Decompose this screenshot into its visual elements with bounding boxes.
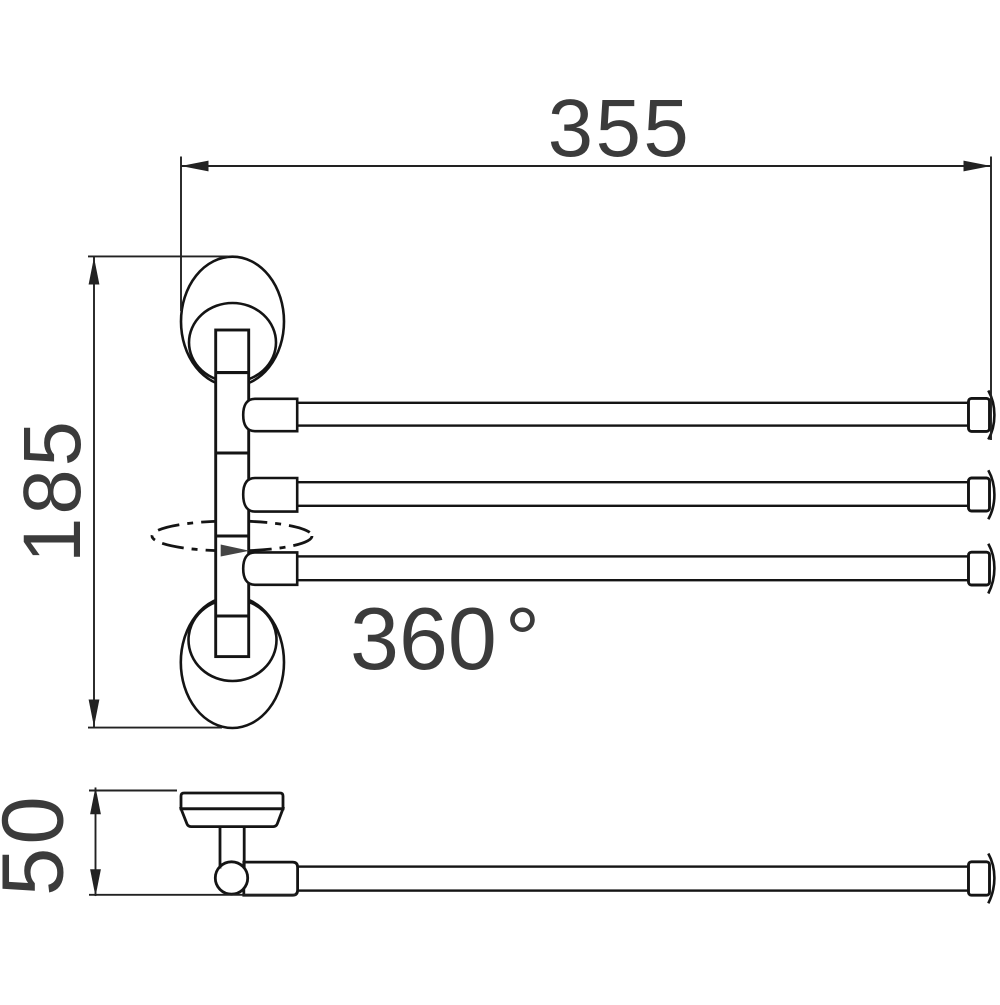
side view pivot ball [215, 862, 247, 894]
side view bar [298, 867, 969, 891]
dim 355 right extension line [990, 157, 992, 441]
dim 50 top arrow [90, 787, 101, 814]
dim 50 line [95, 788, 97, 897]
bottom wall plate outer ellipse [181, 597, 284, 728]
svg-text:185: 185 [7, 418, 98, 563]
post segment line 4 [216, 614, 249, 617]
bar 1 end cap [969, 398, 990, 431]
side view joint block [244, 862, 298, 895]
swivel joint 2 [243, 478, 297, 512]
dim 185 top arrow [89, 257, 100, 284]
bottom wall plate inner circle [189, 599, 277, 681]
bar 2 end cap [969, 478, 990, 511]
top wall plate inner circle [189, 303, 276, 382]
rotation arrow [221, 545, 250, 557]
side view end cap arc [988, 854, 994, 904]
dim 185 bottom extension line [88, 727, 222, 729]
bar 3 end cap [969, 552, 990, 585]
rotation dashed ellipse [152, 521, 312, 551]
dim 185 line [93, 257, 95, 727]
dim 355 left arrow [181, 161, 209, 172]
side view stem left line [219, 827, 222, 869]
svg-text:50: 50 [0, 793, 82, 896]
post segment line 3 [216, 534, 249, 537]
post (central pivot column) [216, 330, 249, 657]
bar 3 end cap arc [988, 544, 994, 594]
swivel joint 3 [243, 552, 297, 584]
dim 355 left extension line [180, 157, 182, 312]
svg-text:355: 355 [548, 83, 691, 174]
dim 185 bottom arrow [89, 700, 100, 727]
side view end cap [969, 862, 990, 895]
side view stem right line [243, 827, 246, 868]
dim 355 right arrow [964, 161, 992, 172]
post segment line 2 [216, 451, 249, 454]
bar 2 end cap arc [988, 470, 994, 519]
bar 1 [297, 403, 968, 426]
dim 50 bottom extension line [89, 894, 297, 896]
side view wall plate band [181, 793, 283, 809]
bar 1 end cap arc [988, 391, 994, 440]
dim 355 line [181, 165, 991, 167]
side view wall plate skirt [181, 809, 283, 827]
bar 2 [297, 482, 968, 506]
top wall plate outer ellipse [181, 257, 284, 387]
dim 50 top extension line [89, 790, 177, 792]
swivel joint 1 [243, 399, 297, 431]
dim 50 bottom arrow [90, 869, 101, 896]
bar 3 [297, 556, 968, 580]
svg-text:360°: 360° [350, 589, 540, 688]
post segment line 1 [216, 371, 249, 374]
dim 185 top extension line [88, 255, 228, 257]
